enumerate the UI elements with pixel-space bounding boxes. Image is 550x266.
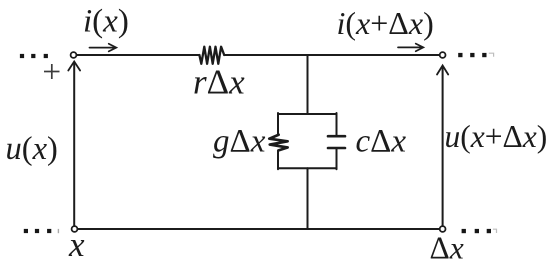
continuation dots top-left (20, 54, 48, 58)
wire top right segment (224, 54, 439, 56)
wire left branch lower (277, 150, 279, 169)
wire right branch lower (336, 149, 338, 170)
faint mark bottom-left (57, 229, 59, 233)
node terminal top-right (440, 52, 446, 58)
wire parallel box bottom (278, 167, 337, 169)
plus polarity mark (44, 64, 60, 79)
wire right branch upper (336, 113, 338, 135)
current arrow i(x+dx) (398, 46, 422, 48)
arrowhead u(x) up (68, 62, 80, 71)
svg-text:u(x+Δx): u(x+Δx) (445, 119, 548, 154)
svg-text:i(x+Δx): i(x+Δx) (337, 5, 434, 41)
continuation dots bottom-left (24, 229, 52, 233)
wire shunt stem bottom (307, 168, 309, 229)
svg-text:Δx: Δx (430, 231, 464, 266)
arrowhead u(x+dx) up (437, 66, 448, 75)
capacitor C (c dx) top plate (328, 135, 345, 138)
svg-text:u(x): u(x) (6, 131, 58, 167)
wire top left segment (77, 54, 200, 56)
wire left branch upper (277, 113, 279, 135)
svg-text:i(x): i(x) (83, 4, 129, 40)
svg-text:gΔx: gΔx (213, 124, 266, 160)
faint mark top-right (489, 53, 494, 57)
wire left vertical (u(x) arrow shaft) (73, 64, 75, 226)
capacitor C (c dx) bottom plate (328, 147, 345, 150)
node terminal bottom-right (440, 226, 446, 232)
wire parallel box top (278, 113, 337, 115)
node terminal top-left (71, 52, 77, 58)
resistor R (r dx) zigzag (199, 47, 224, 64)
wire bottom (78, 228, 440, 230)
resistor G (g dx) compressed zigzag (269, 135, 287, 151)
svg-text:x: x (68, 225, 85, 264)
node terminal bottom-left (72, 226, 78, 232)
faint mark bottom-right (493, 229, 497, 233)
continuation dots top-right (458, 53, 486, 57)
wire shunt stem top (307, 55, 309, 114)
svg-text:rΔx: rΔx (193, 63, 245, 102)
current arrow i(x) (90, 47, 115, 49)
continuation dots bottom-right (462, 229, 491, 233)
svg-text:cΔx: cΔx (356, 124, 407, 160)
wire right vertical (u(x+dx) arrow shaft) (442, 68, 444, 226)
